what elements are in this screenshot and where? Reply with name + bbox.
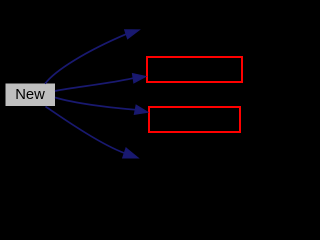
edge New->top node	[45, 34, 126, 84]
node box1 (red-bordered)	[147, 57, 242, 82]
edge New->bottom node	[46, 107, 125, 154]
edge New->box1	[55, 78, 133, 91]
arrowhead New->box2	[134, 105, 148, 114]
arrowhead New->box1	[132, 74, 146, 84]
svg-text:New: New	[15, 87, 45, 103]
node New (current node, grey)	[6, 84, 56, 107]
arrowhead New->bottom node	[123, 148, 139, 158]
arrowhead New->top node	[125, 30, 140, 39]
edge New->box2	[55, 98, 135, 110]
node box2 (red-bordered)	[149, 107, 240, 132]
